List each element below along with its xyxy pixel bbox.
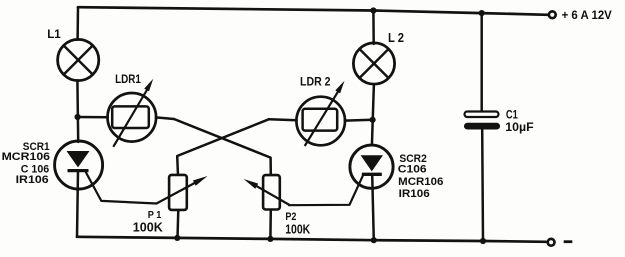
wire SCR1 cathode to bottom rail (77, 171, 78, 237)
svg-text:+ 6 A 12V: + 6 A 12V (562, 8, 613, 22)
node junction bottom rail C1 (480, 238, 486, 244)
wire L2 to SCR2 (372, 84, 374, 145)
wire SCR1 gate (86, 173, 157, 204)
svg-text:C106: C106 (398, 164, 427, 176)
wire node to LDR1 (78, 116, 108, 119)
wire P2 bottom lead (269, 210, 272, 239)
svg-text:MCR106: MCR106 (398, 176, 443, 188)
svg-text:MCR106: MCR106 (2, 151, 51, 163)
svg-text:L1: L1 (47, 27, 61, 41)
thyristor SCR2 (350, 145, 393, 188)
wire SCR2 gate (289, 176, 363, 205)
wire LDR2 left (269, 119, 297, 120)
svg-text:L 2: L 2 (388, 31, 404, 45)
thyristor SCR1 (55, 141, 103, 189)
wire diagonal LDR1 to P2 (174, 119, 271, 176)
node junction bottom rail SCR2 (371, 237, 377, 243)
label SCR2 (398, 153, 444, 200)
label SCR1 (2, 141, 51, 186)
svg-text:IR106: IR106 (399, 188, 430, 200)
svg-text:10µF: 10µF (505, 120, 534, 134)
node junction bottom rail P2 (267, 236, 273, 242)
terminal positive (549, 11, 556, 18)
node junction top rail C1 (479, 10, 485, 16)
svg-text:100K: 100K (133, 220, 164, 235)
wire C1 branch top (480, 13, 483, 112)
potentiometer P2 (244, 175, 290, 209)
node junction top rail L2 (370, 7, 376, 13)
wire C1 branch bottom (481, 129, 484, 241)
svg-text:100K: 100K (285, 221, 310, 236)
lamp L2 (353, 43, 394, 84)
potentiometer P1 (157, 175, 208, 210)
label minus (564, 240, 573, 243)
wire LDR1 right (156, 117, 174, 119)
lamp L1 (58, 39, 99, 80)
wire L1 to SCR1 (76, 80, 79, 142)
wire left vertical top (76, 7, 79, 40)
capacitor C1 (464, 112, 500, 130)
node junction LDR2-L2 (370, 117, 376, 123)
svg-text:IR106: IR106 (16, 174, 49, 186)
LDR1 (108, 79, 157, 147)
wire top rail (78, 7, 548, 15)
terminal negative (548, 239, 555, 246)
node junction bottom rail P1 (174, 235, 180, 241)
LDR2 (296, 81, 345, 146)
wire SCR2 cathode to bottom rail (372, 175, 374, 241)
wire bottom rail (77, 237, 546, 242)
wire P1 bottom lead (176, 210, 179, 238)
node junction L1-LDR1 (75, 114, 81, 120)
svg-text:LDR1: LDR1 (115, 72, 141, 86)
svg-text:LDR 2: LDR 2 (300, 75, 331, 89)
wire top rail to L2 (372, 11, 375, 44)
wire diagonal LDR2 to P1 (177, 119, 269, 175)
wire LDR2 right (345, 119, 373, 122)
